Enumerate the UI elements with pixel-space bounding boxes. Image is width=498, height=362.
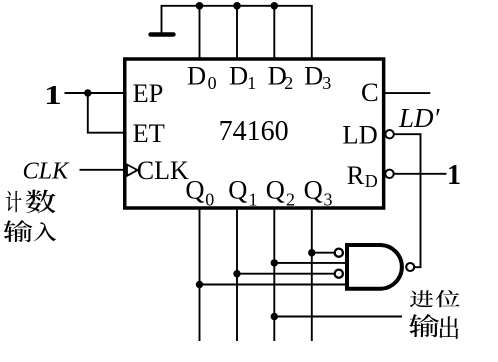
junction dot rail/D1 — [233, 2, 241, 10]
svg-text:2: 2 — [286, 190, 295, 210]
label char 入 — [34, 222, 57, 241]
wire: Q2 to NAND input 2 — [274, 262, 347, 264]
wire: constant 1 to EP pin — [65, 92, 125, 94]
label char 出 — [439, 316, 458, 339]
label char 计 — [6, 191, 22, 213]
wire: CLK input — [80, 169, 125, 171]
gate: 4-input AND body (state-5 decoder) — [347, 245, 402, 289]
svg-text:R: R — [347, 160, 365, 190]
wire: Q3 column — [311, 208, 313, 341]
wire: rail drop to D1 — [236, 6, 238, 59]
wire: Q0 column — [199, 208, 201, 341]
wire: Q3 to NAND inverted input 1 — [312, 252, 335, 254]
wire: carry output tap from Q2 — [274, 316, 402, 318]
junction dot Q3 tap — [308, 249, 315, 256]
svg-text:ET: ET — [133, 118, 165, 148]
clock chevron on CLK pin — [127, 165, 138, 176]
op 74160 counter U1 box — [125, 59, 384, 208]
junction dot Q1 tap — [233, 270, 240, 277]
svg-text:LD: LD — [342, 120, 377, 150]
svg-text:CLK: CLK — [137, 156, 189, 185]
svg-text:Q: Q — [228, 174, 247, 204]
svg-text:1: 1 — [447, 160, 461, 191]
junction dot rail/D0 — [196, 2, 204, 10]
svg-text:74160: 74160 — [219, 116, 289, 147]
wire: rail drop to D2 — [273, 6, 275, 59]
junction dot EP/ET tie — [84, 89, 91, 96]
inversion bubble on LD pin — [385, 130, 393, 138]
junction dot rail/D2 — [271, 2, 279, 10]
node: constant 1 at EP/ET — [44, 80, 62, 110]
wire: Q0 to NAND input 4 — [200, 284, 348, 286]
svg-text:LD′: LD′ — [398, 103, 441, 133]
svg-text:0: 0 — [205, 190, 214, 210]
wire: LD-bar net from LD pin down to NAND output — [394, 134, 420, 267]
svg-text:Q: Q — [185, 174, 204, 204]
ground — [151, 32, 174, 36]
inversion bubble on gate input 3 (Q1) — [335, 270, 343, 278]
wire: ground rail with drop to D3 pin — [162, 6, 312, 59]
wire: C (carry) output stub — [385, 92, 430, 94]
wire: Q2 column — [273, 208, 275, 341]
wire: tie down to ET pin — [88, 93, 124, 133]
label char shu2 — [409, 314, 439, 337]
wire: constant 1 to RD pin — [394, 173, 446, 175]
junction dot Q2 tap — [271, 259, 278, 266]
svg-text:D: D — [229, 61, 248, 91]
svg-text:C: C — [361, 77, 379, 107]
svg-text:3: 3 — [324, 190, 333, 210]
svg-text:Q: Q — [266, 174, 285, 204]
svg-text:CLK: CLK — [23, 157, 71, 184]
svg-text:3: 3 — [322, 73, 331, 93]
svg-text:1: 1 — [249, 190, 258, 210]
svg-text:D: D — [187, 61, 206, 91]
label char 数 — [26, 190, 56, 214]
wire: Q1 column — [236, 208, 238, 341]
svg-text:1: 1 — [44, 80, 62, 110]
svg-text:EP: EP — [133, 78, 164, 108]
junction dot carry/Q2 — [271, 313, 278, 320]
svg-text:Q: Q — [304, 174, 323, 204]
inversion bubble on gate output — [406, 263, 414, 271]
inversion bubble on RD pin — [385, 170, 393, 178]
wire: rail drop to D0 — [199, 6, 201, 59]
inversion bubble on gate input 1 (Q3) — [335, 249, 343, 257]
svg-text:D: D — [365, 171, 378, 191]
label char 位 — [436, 290, 460, 307]
svg-text:0: 0 — [208, 73, 217, 93]
junction dot Q0 tap — [196, 281, 203, 288]
wire: Q1 to NAND inverted input 3 — [237, 273, 335, 275]
svg-text:1: 1 — [247, 73, 256, 93]
svg-text:D: D — [304, 61, 323, 91]
label char 进 — [410, 290, 433, 307]
svg-text:2: 2 — [284, 73, 293, 93]
label char shu1 — [4, 220, 33, 242]
